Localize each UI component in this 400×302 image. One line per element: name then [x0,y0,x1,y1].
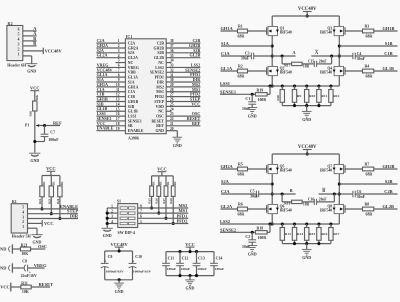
IC1 pin 34 NC stub [166,59,174,63]
svg-text:R18: R18 [257,227,264,231]
ground port at VREG row [0,263,12,272]
svg-text:S2B: S2B [157,51,164,55]
resistor R24 1K pullup [56,176,64,219]
svg-text:GH2A: GH2A [128,46,139,50]
svg-text:LSS1: LSS1 [128,114,137,118]
svg-text:10R: 10R [303,203,310,207]
wire IC1 pin 6 net VREG [96,62,125,67]
svg-text:15: 15 [116,107,120,111]
svg-text:R6: R6 [238,203,243,207]
capacitor C9 1000uF/63V [101,251,124,280]
svg-text:Header 5H: Header 5H [12,234,32,239]
resistor R12 sense [329,86,340,106]
power VCC48V above C9/C10 [111,242,129,251]
svg-text:R23: R23 [47,198,51,204]
svg-text:22uF/16V: 22uF/16V [21,274,37,278]
junction R28 [172,222,175,225]
svg-text:6: 6 [118,64,120,68]
svg-text:GL2A: GL2A [97,53,108,58]
IC1 pin 5 NC stub [116,59,126,63]
svg-text:C1B: C1B [384,51,392,56]
svg-text:68R: 68R [238,173,245,177]
capacitor C15 20nF snubber [302,56,332,67]
svg-text:C10: C10 [135,255,142,259]
svg-text:1K: 1K [152,181,156,186]
svg-text:17: 17 [116,117,120,121]
resistor R22 1K pullup [38,176,46,209]
svg-text:2: 2 [18,48,20,52]
svg-text:R19: R19 [257,89,264,93]
svg-text:19: 19 [116,127,120,131]
svg-text:R11: R11 [21,281,28,285]
potentiometer P1 wiper [25,124,60,128]
svg-text:C1: C1 [245,97,250,101]
svg-text:30: 30 [170,78,174,82]
wire net S2A [221,179,272,184]
svg-text:GH1A: GH1A [221,26,234,31]
resistor R16 sense [317,224,328,244]
wire IC1 pin 36 net S2B [166,48,200,53]
svg-text:32: 32 [170,68,174,72]
ground under S1 [102,228,113,238]
svg-text:A3986: A3986 [128,136,139,141]
svg-text:100nF: 100nF [215,267,224,271]
svg-text:30nF: 30nF [357,57,366,61]
svg-text:ENABLE: ENABLE [128,129,144,133]
svg-text:R17: R17 [284,64,290,68]
svg-text:REF: REF [192,121,201,126]
svg-text:LSS2: LSS2 [220,219,230,224]
svg-text:27: 27 [170,93,174,97]
svg-text:Header 6H: Header 6H [7,62,27,67]
svg-text:DIR: DIR [157,80,164,84]
svg-text:10R: 10R [303,65,310,69]
power VCC48V phase2 bridge [298,145,317,155]
junction R22 [40,207,43,210]
svg-text:RESET: RESET [39,282,53,287]
capacitor C5 30nF [221,189,296,199]
svg-text:GND: GND [302,117,311,122]
resistor R25 1K pullup [147,176,155,208]
ground under phase1 sense rail [302,111,312,122]
svg-text:35: 35 [170,54,174,58]
wire IC1 pin 27 net PFD2 [166,92,200,97]
svg-text:GND: GND [173,143,182,148]
resistor R16 10R snubber [282,194,309,207]
svg-text:VCC: VCC [30,85,40,90]
power VCC above K1 pullups [42,166,60,176]
svg-text:68R: 68R [366,213,373,217]
svg-text:R25: R25 [147,198,151,204]
capacitor C11 100nF [162,252,176,276]
svg-text:MS2: MS2 [156,85,164,89]
svg-text:21: 21 [170,122,174,126]
svg-text:2: 2 [22,220,24,224]
resistor R21 10K [13,243,30,256]
resistor R1 68R [221,25,267,39]
node B [281,188,293,196]
svg-text:1: 1 [111,204,113,208]
junction R26 [157,212,160,215]
ground under phase2 sense rail [302,249,312,260]
svg-text:12: 12 [116,93,120,97]
svg-text:R11: R11 [321,94,327,98]
resistor R17 sense [329,224,340,244]
svg-text:S2B: S2B [385,179,393,184]
svg-text:R12: R12 [333,94,339,98]
wire IC1 pin 15 net GL1B [96,106,125,111]
svg-text:STEP: STEP [154,100,164,104]
capacitor C8 22uF/16V [13,260,37,279]
IC1 pin 24 NC stub [166,107,174,111]
svg-text:1: 1 [22,225,24,229]
svg-text:VCC: VCC [185,242,195,247]
svg-text:3: 3 [22,215,24,219]
resistor R23 1K pullup [47,176,55,214]
resistor R20 sense [276,86,285,106]
svg-text:GND: GND [186,286,195,291]
svg-text:VCC: VCC [44,221,54,226]
svg-text:PFD2: PFD2 [155,95,164,99]
svg-text:5: 5 [118,59,120,63]
svg-text:OSC: OSC [156,114,164,118]
wire phase1 right leg [338,16,341,86]
switch S1 SW DIP-4 [117,199,138,235]
svg-text:29: 29 [170,83,174,87]
svg-text:NC: NC [158,110,164,114]
wire IC1 pin 1 net C2A [96,38,125,43]
wire IC1 pin 11 net C1A [96,87,125,92]
IC U1 A3986 body [125,34,166,141]
resistor R17 10R snubber [282,56,309,69]
svg-text:100nF: 100nF [197,267,206,271]
wire phase2 right leg [338,154,341,224]
transistor Q2 IRF540 [267,66,292,75]
transistor Q1 IRF540 [267,26,292,35]
capacitor C16 20nF snubber [302,194,334,205]
svg-text:GH2B: GH2B [383,164,395,169]
svg-text:100R: 100R [258,98,267,102]
wire phase2 left leg [271,154,274,226]
junction pot chain [33,140,36,143]
net label OSC [31,244,47,249]
svg-text:C2: C2 [245,235,250,239]
svg-text:IRF540: IRF540 [320,209,332,213]
ground at IC1 pin 20 [166,127,182,148]
svg-text:33: 33 [170,64,174,68]
svg-text:6: 6 [140,215,142,219]
wire IC1 pin 14 net S1B [96,101,125,106]
svg-text:R26: R26 [28,111,32,117]
svg-text:R14: R14 [297,232,303,236]
power VCC48V phase1 bridge [298,7,317,17]
wire C9/C10 top rail [105,249,133,252]
svg-text:SENSE1: SENSE1 [128,119,142,123]
svg-text:4: 4 [22,211,24,215]
wire S1 left pin 3 [107,215,118,219]
wire K1 pin 5 net ENABLE [28,204,79,209]
wire IC1 pin 29 net MS2 [166,82,200,87]
wire S1 ground rail [106,208,109,228]
svg-text:5: 5 [22,206,24,210]
wire phase1 VCC rail [272,15,339,17]
resistor R14 sense [292,224,303,244]
svg-text:R28: R28 [169,198,173,204]
svg-text:31: 31 [170,73,174,77]
svg-text:+: + [105,260,107,264]
svg-text:1000uF/63V: 1000uF/63V [133,270,152,274]
wire IC1 pin 30 net DIR [166,77,200,82]
wire IC1 pin 22 net RESET [166,116,200,121]
svg-text:7: 7 [118,68,120,72]
svg-text:100R: 100R [258,236,267,240]
ground under C11-C14 [185,280,195,291]
node A [281,50,297,58]
ground at K2 pin 1 [23,56,38,73]
svg-text:C11: C11 [168,256,175,260]
svg-text:GH1B: GH1B [383,26,395,31]
svg-text:25: 25 [170,102,174,106]
svg-text:34: 34 [170,59,174,63]
resistor R18 100R [255,224,270,240]
svg-text:37: 37 [170,44,174,48]
capacitor C12 100nF [176,252,190,276]
wire K2 pin 3 net Bbar [23,41,37,46]
svg-text:C2A: C2A [221,189,230,194]
net label REF [53,120,62,125]
svg-text:S2A: S2A [128,51,135,55]
svg-text:3: 3 [111,215,113,219]
resistor R2 68R [221,65,267,79]
svg-text:GND: GND [302,255,311,260]
wire net LSS2 [220,219,339,225]
svg-text:S1A: S1A [128,80,135,84]
svg-text:NC: NC [158,61,164,65]
svg-text:+: + [133,260,135,264]
capacitor C6 30nF [339,189,397,199]
connector K1 Header 5H [11,199,31,238]
svg-text:GND: GND [30,158,39,163]
svg-text:VDD: VDD [156,105,164,109]
svg-text:C2B: C2B [384,189,392,194]
svg-text:1K: 1K [166,181,170,186]
svg-text:OSC: OSC [38,244,47,249]
wire K1 pin 4 net STEP [28,209,79,214]
wire phase2 sense rail [282,242,331,249]
junction R25 [150,206,153,209]
svg-text:IRF540: IRF540 [280,31,292,35]
svg-text:5: 5 [18,33,20,37]
capacitor C1 10nF [242,94,256,111]
wire net S2B [339,179,397,184]
svg-text:R9: R9 [297,94,302,98]
svg-text:8: 8 [118,73,120,77]
wire C9/C10 bottom rail [105,278,133,283]
svg-text:9: 9 [118,78,120,82]
svg-text:IRF540: IRF540 [280,169,292,173]
svg-text:38: 38 [170,39,174,43]
svg-text:R8: R8 [365,203,370,207]
wire K2 pin 5 net Abar [23,31,37,36]
svg-text:8: 8 [140,204,142,208]
svg-text:68R: 68R [366,75,373,79]
transistor Q8 IRF540 [320,204,345,213]
svg-text:GND: GND [27,68,36,73]
svg-text:R16: R16 [321,232,327,236]
wire IC1 pin 26 net STEP [166,96,200,101]
resistor R4 68R [345,65,398,79]
svg-text:68R: 68R [366,173,373,177]
junction R24 [58,217,61,220]
svg-text:C1A: C1A [128,90,136,94]
wire IC1 pin 18 net VCC [96,121,125,126]
wire phase2 VCC rail [272,153,339,155]
svg-text:20nF: 20nF [319,197,328,201]
resistor R26 10K (pot chain) [28,94,39,116]
svg-text:IRF540: IRF540 [320,31,332,35]
svg-text:4: 4 [111,220,113,224]
wire net SENSE1 [220,89,255,95]
wire IC1 pin 33 net LSS2 [166,62,200,67]
svg-text:4: 4 [18,38,20,42]
resistor R28 1K pullup [169,176,177,224]
svg-text:PFD2: PFD2 [177,219,188,224]
svg-text:GND: GND [248,251,257,256]
svg-text:IRF540: IRF540 [320,71,332,75]
svg-text:VCC: VCC [191,101,200,106]
wire IC1 pin 16 net LSS1 [96,111,125,116]
svg-text:P1: P1 [25,124,29,128]
wire IC1 pin 2 net GH2A [96,43,125,48]
svg-text:LSS1: LSS1 [220,81,230,86]
ground port at OSC row [0,244,12,253]
power VCC above C11-C14 [185,242,195,252]
wire IC1 pin 10 net GH1A [96,82,125,87]
wire IC1 pin 8 net GL1A [96,72,125,77]
wire net LSS1 [220,81,339,87]
svg-text:11: 11 [116,88,120,92]
node B [319,188,340,196]
svg-text:6: 6 [18,28,20,32]
wire phase1 left leg [271,16,274,88]
wire S1 pin 5 net PFD2 [138,219,189,224]
svg-text:SR: SR [128,124,133,128]
wire IC1 pin 25 net VCC [166,101,200,106]
svg-text:3: 3 [18,43,20,47]
svg-text:SENSE1: SENSE1 [220,89,236,94]
resistor R10 sense [305,86,316,106]
svg-text:18: 18 [116,122,120,126]
ground at C2 [247,246,257,257]
svg-text:S2A: S2A [221,179,230,184]
wire S1 left pin 2 [107,210,118,214]
svg-text:S1B: S1B [128,105,135,109]
resistor R15 sense [305,224,316,244]
resistor R19 100R [255,86,270,102]
svg-text:SW DIP-4: SW DIP-4 [118,230,135,235]
svg-text:B: B [322,188,325,193]
node Abar overline [315,49,318,51]
svg-text:68R: 68R [366,35,373,39]
svg-text:GL2A: GL2A [221,204,234,209]
svg-text:REF: REF [156,124,164,128]
svg-text:DIR: DIR [70,214,79,219]
svg-text:R5: R5 [238,163,243,167]
svg-text:GH1A: GH1A [128,85,139,89]
wire pot chain [34,111,36,153]
svg-text:R10: R10 [309,94,315,98]
transistor Q7 IRF540 [320,164,345,173]
transistor Q6 IRF540 [267,204,292,213]
svg-text:10K: 10K [35,94,39,100]
svg-text:68R: 68R [238,213,245,217]
resistor R9 sense [292,86,301,106]
svg-text:23: 23 [170,112,174,116]
ground at K1 pin 1 [28,228,43,244]
resistor R26 1K pullup [155,176,163,213]
svg-text:VCC: VCC [157,166,167,171]
wire S1 pin 6 net PFD1 [138,213,189,218]
wire IC1 pin 9 net S1A [96,77,125,82]
svg-text:14: 14 [116,102,120,106]
junction R23 [50,212,53,215]
wire S1 left pin 4 [107,220,118,224]
svg-text:GH1B: GH1B [128,100,139,104]
wire IC1 pin 31 net PFD1 [166,72,200,77]
wire K1 pin 3 net DIR [28,214,79,219]
svg-text:20: 20 [170,127,174,131]
svg-text:1000uF/63V: 1000uF/63V [106,270,125,274]
svg-text:VCC48V: VCC48V [45,48,63,53]
svg-text:16: 16 [116,112,120,116]
wire S1 pin 7 net MS1 [138,208,189,213]
wire net SENSE2 [220,227,255,233]
net label RESET [31,282,53,287]
svg-text:26: 26 [170,98,174,102]
svg-text:GND: GND [0,266,6,271]
svg-text:1: 1 [18,53,20,57]
svg-text:22: 22 [170,117,174,121]
svg-text:S1: S1 [117,199,121,204]
svg-text:68R: 68R [238,75,245,79]
wire IC1 pin 21 net REF [166,121,200,126]
resistor R27 1K pullup [162,176,170,218]
svg-text:S1B: S1B [385,41,393,46]
svg-text:VBB: VBB [128,71,136,75]
svg-text:C15: C15 [308,59,314,63]
node A [311,50,339,58]
ground at C1 [247,108,257,119]
wire K2 pin 4 net B [23,36,37,41]
svg-text:VCC: VCC [0,285,10,290]
resistor R8 68R [345,203,398,217]
svg-text:C3: C3 [245,51,250,55]
capacitor C14 100nF [210,252,224,276]
capacitor C10 1000uF/63V [129,251,152,280]
resistor R3 68R [345,25,398,39]
svg-text:C14: C14 [216,256,223,260]
wire IC1 pin 28 net MS1 [166,87,200,92]
resistor R11 10K [11,281,31,294]
wire IC1 pin 23 net OSC [166,111,200,116]
svg-text:SENSE2: SENSE2 [150,71,164,75]
svg-text:VREG: VREG [128,66,139,70]
junction REF/C7 [43,124,46,127]
svg-text:1: 1 [118,39,120,43]
power VCC at K1 pin 2 [28,220,54,226]
svg-text:1K: 1K [173,181,177,186]
svg-text:R26: R26 [155,198,159,204]
